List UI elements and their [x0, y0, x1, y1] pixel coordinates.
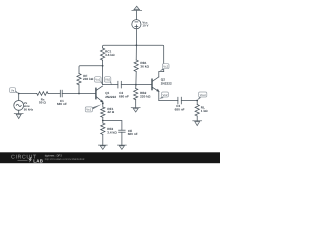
capacitor C1	[60, 90, 62, 97]
svg-text:680 nF: 680 nF	[128, 132, 138, 136]
ground (below CE)	[117, 145, 126, 149]
wire: C3 to RL	[181, 100, 197, 102]
wire: Q2 collector to rail drop	[159, 72, 164, 77]
junction: RF / base wire	[78, 93, 80, 95]
svg-text:220 kΩ: 220 kΩ	[140, 94, 151, 98]
svg-text:3.6 kΩ: 3.6 kΩ	[105, 53, 115, 57]
svg-text:Vb2: Vb2	[105, 78, 111, 82]
svg-text:3.4 kΩ: 3.4 kΩ	[107, 130, 117, 134]
resistor Rs 50	[37, 92, 48, 96]
wire: Q1 emitter to RE1	[102, 102, 104, 107]
footer bar	[0, 152, 220, 163]
wire: RF bottom to base wire	[78, 85, 80, 94]
svg-text:Vo2: Vo2	[163, 93, 168, 97]
wire: Vcc source to rail	[135, 29, 137, 46]
junction: C2 / RB1 / RB2 / Q2 base	[135, 84, 137, 86]
wire: Vcc top stub	[135, 11, 137, 20]
capacitor C2	[118, 81, 121, 88]
capacitor C3 (output coupling)	[178, 97, 181, 104]
svg-text:10 V: 10 V	[142, 24, 148, 28]
junction: emitter node	[102, 103, 104, 105]
wire: output row to C3	[159, 100, 178, 102]
wire: Vs to ground	[18, 110, 20, 113]
svg-text:Vs: Vs	[11, 88, 15, 92]
svg-text:36 kΩ: 36 kΩ	[140, 64, 149, 68]
svg-text:Ve1: Ve1	[86, 108, 91, 112]
ground (below RB2)	[131, 108, 140, 112]
transistor Q1 2N2222 (NPN)	[96, 86, 103, 102]
svg-text:Vout: Vout	[200, 93, 206, 97]
node flag Vc2 (on collector wire)	[160, 64, 169, 72]
resistor RB2 220k	[135, 85, 137, 89]
svg-text:50 Ω: 50 Ω	[39, 101, 46, 105]
junction: Vs / Rs	[18, 93, 20, 95]
svg-text:680 nF: 680 nF	[175, 108, 185, 112]
svg-text:Vo1: Vo1	[95, 78, 100, 82]
ground (below Vs)	[14, 114, 23, 119]
resistor RC1	[101, 48, 105, 60]
svg-text:42 Ω: 42 Ω	[107, 110, 114, 114]
svg-text:2N2222: 2N2222	[161, 82, 172, 86]
svg-text:50 kHz: 50 kHz	[24, 107, 34, 111]
wire: collector row to C2	[103, 84, 118, 86]
resistor RF 240k (collector feedback)	[77, 74, 81, 85]
svg-text:1 kΩ: 1 kΩ	[201, 109, 208, 113]
transistor Q2 2N2222 (NPN emitter follower)	[152, 77, 159, 92]
svg-text:http://circuitlab.com/c6c3fabf: http://circuitlab.com/c6c3fabfed6dc	[45, 158, 86, 161]
junction: RL / Vout	[196, 100, 198, 102]
svg-text:680 nF: 680 nF	[119, 94, 129, 98]
wire: Q2 emitter down to output row	[158, 91, 160, 100]
capacitor CE (bypass)	[119, 130, 126, 132]
wire: RC1 bottom to collector node	[102, 60, 104, 84]
svg-text:Vc2: Vc2	[163, 65, 168, 69]
node flag Ve1 (Q1 emitter)	[85, 104, 102, 112]
node flag Vb2	[104, 77, 111, 85]
wire: feedback from collector node to RF top	[79, 66, 103, 74]
wire: RE1 to RE2	[102, 117, 104, 123]
wire: Rs to C1	[48, 93, 60, 95]
ground (flipped, above Vcc source)	[132, 6, 142, 10]
ground (below RE2)	[98, 145, 107, 149]
resistor RE1 62	[101, 107, 105, 117]
wire: C2 to Q2 base node	[121, 84, 152, 86]
svg-text:2N2222: 2N2222	[105, 95, 116, 99]
wire: RE1/RE2 node to CE	[103, 121, 122, 131]
resistor RB1 36k	[135, 45, 137, 60]
wire: C1 to Q1 base	[62, 93, 96, 95]
node flag Vs	[10, 88, 19, 94]
resistor RE2 1.4k	[101, 123, 105, 134]
junction: rail / Vcc	[136, 44, 138, 46]
voltage source V1 (Vcc 10 V)	[132, 20, 141, 29]
voltage source Vs (sine)	[18, 94, 20, 101]
ground (below RL)	[193, 121, 202, 126]
svg-text:LAB: LAB	[33, 158, 44, 163]
svg-text:240 kΩ: 240 kΩ	[83, 77, 94, 81]
resistor RL 1k	[196, 101, 198, 105]
node flag Vout	[197, 92, 207, 100]
junction: RE1/RE2/CE	[102, 120, 104, 122]
junction: RC1 / RF feedback	[102, 65, 104, 67]
wire: CE to ground	[121, 132, 123, 145]
wire: top supply rail	[103, 45, 164, 71]
wire: input row	[19, 93, 37, 95]
node flag Vo2 (Q2 emitter)	[159, 92, 168, 99]
node flag Vo1 (Q1 collector)	[95, 77, 103, 85]
svg-text:680 nF: 680 nF	[57, 102, 67, 106]
